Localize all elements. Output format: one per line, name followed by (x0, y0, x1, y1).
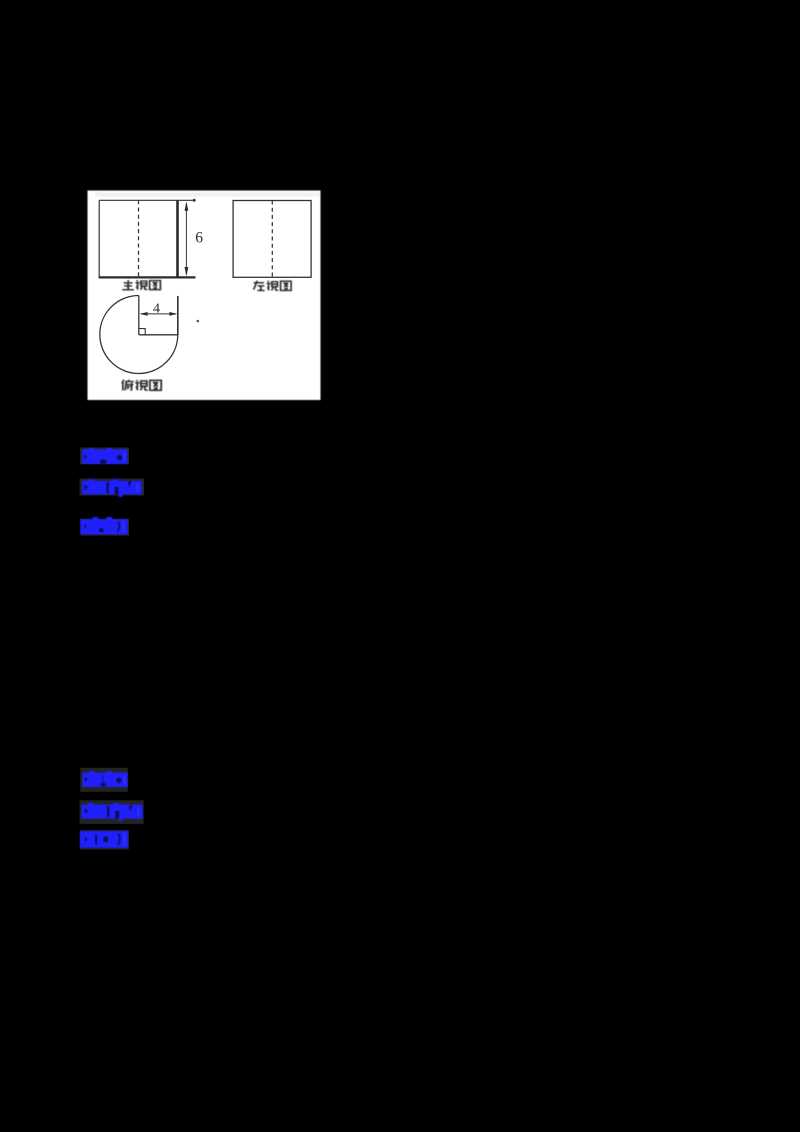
dimension text 4 (153, 302, 160, 317)
blue label 【知识点】 row 2 (dense blob) (81, 803, 142, 821)
blue label 【答案】 row 1 (dense blob) (82, 448, 128, 464)
blue label 【答案】 row 2 (dense blob) (82, 771, 127, 787)
highlight box knowledge row 2 (80, 800, 144, 824)
front view rectangle (99, 200, 196, 277)
label 主视图 (122, 280, 160, 290)
faint grey scan band (95, 193, 320, 197)
highlight box analysis row 2 (80, 830, 129, 850)
dimension line 6 (185, 202, 189, 277)
highlight box answer row 1 (80, 448, 129, 465)
dimension extension tick dot (193, 199, 196, 202)
top view three-quarter circle (100, 296, 178, 374)
highlight box analysis row 1 (81, 519, 130, 536)
blue label 【解析】 row 2 (dense blob) (80, 831, 128, 848)
top view notch bottom line (139, 334, 178, 336)
blue label 【知识点】 row 1 (dense blob) (82, 479, 142, 497)
stray speck (197, 320, 200, 323)
left view dashed axis line (271, 201, 273, 278)
blue label 【解析】 row 1 (dense blob) (80, 517, 128, 534)
label 左视图 (254, 281, 292, 291)
right angle mark (139, 329, 145, 335)
dimension line 4 (140, 312, 178, 316)
highlight box answer row 2 (80, 768, 128, 792)
svg-text:6: 6 (195, 229, 203, 246)
left view rectangle (233, 201, 311, 278)
front view thick right edge (176, 200, 179, 277)
dimension text 6 (195, 229, 203, 246)
top view right extension line (177, 296, 179, 335)
svg-text:4: 4 (153, 302, 160, 317)
label 俯视图 (122, 380, 161, 391)
front view dashed axis line (138, 200, 140, 277)
highlight box knowledge row 1 (80, 479, 145, 496)
white scanned figure panel (88, 191, 321, 401)
top view notch left line (138, 296, 140, 335)
